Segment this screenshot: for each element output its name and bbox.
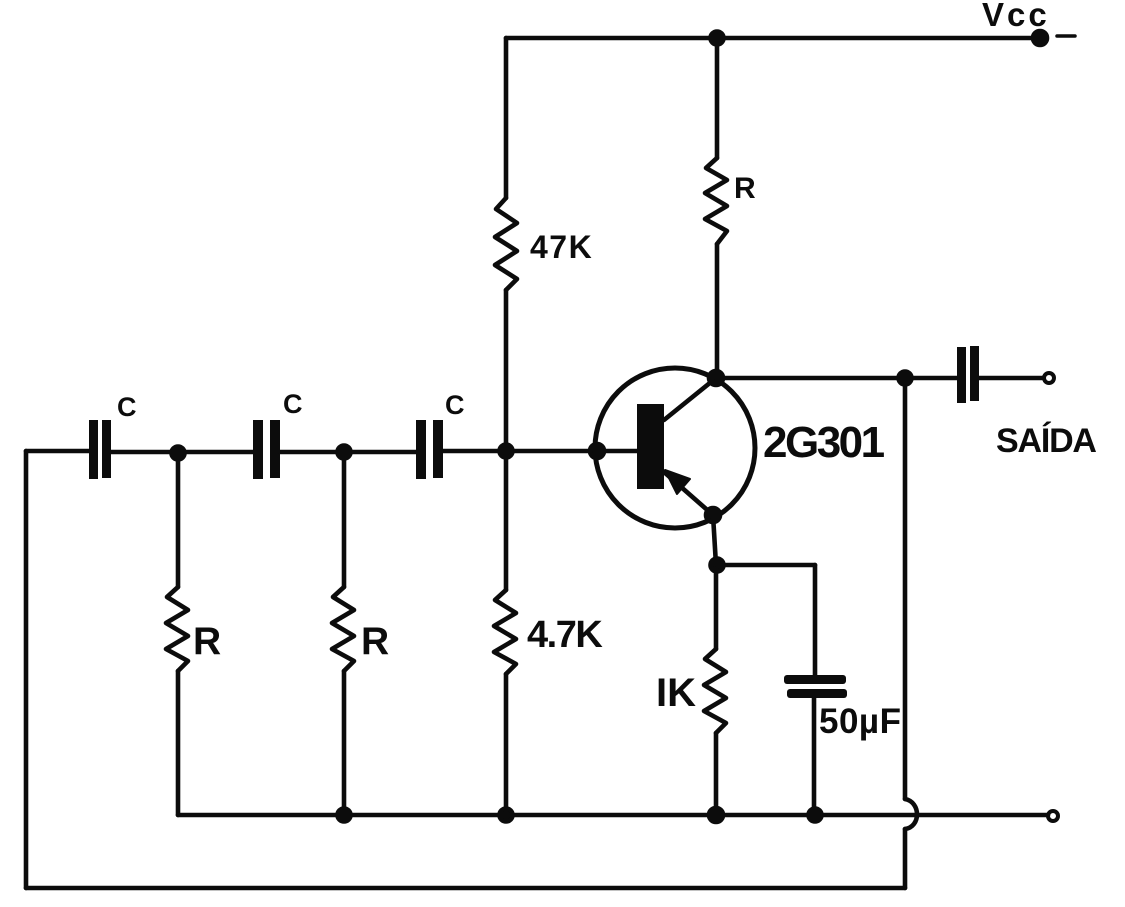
svg-text:R: R bbox=[193, 620, 221, 663]
wire cap to output terminal bbox=[979, 376, 1043, 381]
wire bypass branch horizontal bbox=[717, 563, 815, 568]
svg-text:C: C bbox=[117, 392, 137, 422]
node rail terminal (open) bbox=[1048, 811, 1058, 821]
transistor collector lead bbox=[664, 378, 716, 420]
wire C1 to node bbox=[111, 450, 253, 455]
wire R branch upper bbox=[715, 38, 720, 158]
wire bottom rail bbox=[178, 813, 1048, 818]
wire R1 column upper bbox=[176, 453, 181, 587]
node emitter bbox=[706, 508, 720, 522]
capacitor C3 bbox=[416, 420, 443, 479]
node rail/4.7K bbox=[500, 809, 513, 822]
wire R2 column lower bbox=[342, 671, 347, 815]
wire feedback bottom bbox=[26, 886, 905, 891]
wire 50uF to rail bbox=[812, 698, 817, 815]
transistor emitter arrowhead bbox=[665, 470, 690, 494]
capacitor C1 bbox=[89, 420, 111, 479]
wire C2 to node bbox=[280, 450, 416, 455]
resistor 1K bbox=[704, 649, 726, 733]
wire 47K branch lower bbox=[504, 290, 509, 451]
node 1K/rail bbox=[709, 808, 723, 822]
transistor base bar bbox=[637, 404, 664, 489]
wire emitter down bbox=[713, 515, 716, 565]
svg-text:R: R bbox=[361, 620, 389, 663]
resistor 47K bbox=[495, 198, 517, 290]
node output terminal (open) bbox=[1044, 373, 1054, 383]
svg-text:R: R bbox=[734, 172, 756, 205]
wire emitter to 1K bbox=[714, 565, 719, 649]
node rail/R2 bbox=[338, 809, 351, 822]
wire R branch lower bbox=[715, 244, 720, 378]
wire collector to output cap bbox=[716, 376, 959, 381]
capacitor C2 bbox=[253, 420, 280, 479]
resistor R2 bbox=[332, 587, 354, 671]
wire 1K to rail bbox=[714, 733, 719, 815]
wire feedback left vertical bbox=[24, 451, 29, 888]
node 50uF/rail bbox=[809, 809, 822, 822]
svg-text:4.7K: 4.7K bbox=[527, 614, 603, 656]
node junction C2/R bbox=[338, 446, 351, 459]
wire dash right of Vcc terminal bbox=[1057, 34, 1075, 38]
node base bbox=[590, 444, 604, 458]
svg-text:Vcc: Vcc bbox=[982, 0, 1050, 33]
wire C3 to base bbox=[443, 449, 637, 454]
resistor 4.7K bbox=[494, 590, 516, 674]
node output junction bbox=[899, 372, 912, 385]
wire 4.7K column lower bbox=[504, 674, 509, 815]
wire 4.7K column upper bbox=[504, 451, 509, 590]
wire 47K branch upper bbox=[504, 38, 509, 198]
wire R2 column upper bbox=[342, 452, 347, 587]
svg-text:2G301: 2G301 bbox=[763, 418, 885, 467]
wire feedback vertical lower bbox=[903, 829, 908, 888]
wire signal line left end bbox=[26, 449, 89, 454]
wire R1 column lower bbox=[176, 671, 181, 815]
resistor R1 bbox=[166, 587, 188, 671]
wire bypass branch vertical bbox=[813, 565, 818, 675]
svg-text:C: C bbox=[445, 390, 465, 420]
svg-text:50µF: 50µF bbox=[819, 702, 901, 741]
capacitor output coupling bbox=[957, 346, 979, 403]
node collector bbox=[709, 371, 723, 385]
node junction C3/4.7K bbox=[500, 445, 513, 458]
wire feedback vertical upper bbox=[903, 378, 908, 799]
svg-text:SAÍDA: SAÍDA bbox=[996, 422, 1096, 460]
capacitor 50uF bbox=[784, 675, 847, 698]
resistor R (collector) bbox=[705, 158, 727, 244]
node junction C1/R bbox=[172, 447, 185, 460]
svg-text:C: C bbox=[283, 389, 303, 419]
node junction top rail / R branch bbox=[711, 32, 724, 45]
transistor Q1 2G301 circle bbox=[595, 368, 755, 528]
wire feedback hop over rail bbox=[905, 799, 917, 829]
node Vcc terminal dot bbox=[1033, 31, 1047, 45]
transistor emitter lead bbox=[664, 472, 713, 515]
wire top supply rail bbox=[506, 36, 1040, 41]
node emitter/bypass junction bbox=[711, 559, 724, 572]
svg-text:IK: IK bbox=[656, 671, 696, 715]
svg-text:47K: 47K bbox=[530, 229, 593, 265]
